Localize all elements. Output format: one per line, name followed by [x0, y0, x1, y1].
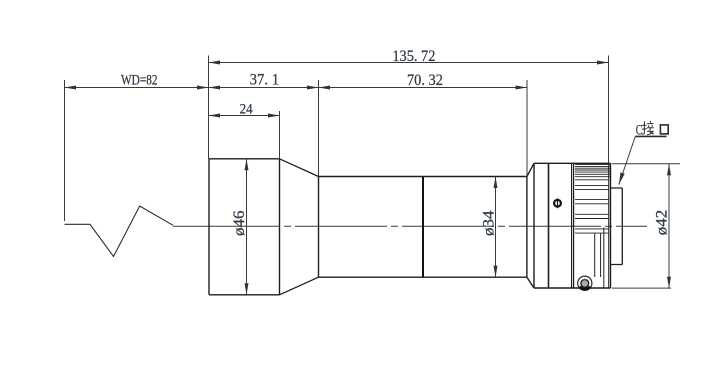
object plane line	[64, 80, 66, 221]
label C interface leader	[619, 136, 635, 184]
mid tube (ø34)	[319, 177, 527, 278]
dimension ø34	[495, 177, 497, 278]
front barrel body (ø46)	[209, 159, 280, 295]
dimension ø42	[668, 164, 670, 288]
tube joint line	[422, 177, 424, 278]
glyph jie (接)	[642, 121, 654, 135]
extension line at 24 edge	[279, 111, 281, 159]
socket head screw	[578, 276, 592, 290]
ø42 extension lines	[612, 163, 680, 165]
svg-text:ø34: ø34	[481, 210, 498, 236]
dimension 135.72	[209, 62, 609, 64]
svg-text:ø42: ø42	[653, 210, 670, 236]
knurl groove pairs	[575, 180, 609, 233]
slotted set screw	[554, 200, 561, 207]
svg-text:37. 1: 37. 1	[250, 71, 280, 88]
rear flange face and chamfers	[527, 163, 611, 288]
dimension ø46	[246, 159, 248, 295]
extension line at flange face	[526, 80, 528, 176]
knurled ring outline	[609, 163, 611, 288]
dimension 37.1	[209, 87, 319, 89]
knurl dense lines	[575, 165, 611, 177]
svg-text:WD=82: WD=82	[121, 73, 158, 89]
dimension 24	[209, 115, 280, 117]
extension line at taper end	[318, 80, 320, 177]
svg-text:C: C	[636, 122, 643, 138]
dimension WD=82	[65, 87, 209, 89]
C-mount barrel	[611, 188, 623, 265]
centerline	[173, 225, 280, 227]
extension line at rear end	[608, 56, 610, 164]
dimension 70.32	[319, 87, 528, 89]
svg-text:24: 24	[240, 101, 253, 117]
taper cone	[280, 159, 319, 295]
break line zigzag	[65, 206, 174, 257]
svg-text:ø46: ø46	[231, 210, 248, 236]
extension line at lens face	[208, 56, 210, 159]
svg-text:70. 32: 70. 32	[407, 72, 443, 89]
glyph kou (口)	[660, 125, 668, 134]
lock ring double line	[572, 163, 574, 288]
svg-text:135. 72: 135. 72	[392, 48, 435, 65]
flange ring line	[548, 163, 550, 288]
rear slot	[595, 234, 601, 278]
